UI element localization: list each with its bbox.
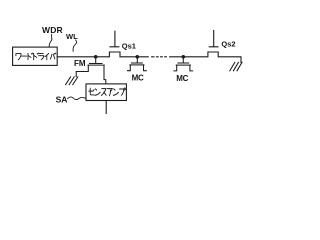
- memory cell MC2 transistor: [174, 57, 193, 71]
- node dot MC1 tap: [136, 55, 140, 59]
- svg-text:MC: MC: [176, 74, 188, 83]
- svg-text:Qs1: Qs1: [122, 41, 136, 50]
- transistor FM (gate stub, gate bar, channel, legs): [76, 57, 106, 84]
- wire WL dashed segment: [152, 56, 167, 58]
- wire SA output: [105, 101, 107, 114]
- transistor Qs2 gate: [209, 30, 218, 46]
- transistor Qs1 gate: [110, 31, 119, 47]
- WDR leader squiggle: [49, 34, 52, 47]
- svg-text:WDR: WDR: [42, 25, 63, 35]
- svg-text:MC: MC: [132, 74, 144, 83]
- WL leader squiggle: [73, 40, 77, 51]
- ground (FM source): [66, 77, 78, 85]
- svg-text:WL: WL: [66, 32, 78, 41]
- node dot FM tap: [94, 55, 98, 59]
- sense amp box SA: [86, 84, 126, 101]
- wire WL left segment with Qs1 channel step: [57, 52, 148, 57]
- svg-text:SA: SA: [56, 94, 68, 104]
- SA leader squiggle: [68, 97, 86, 100]
- wire WL right segment with Qs2 channel step: [170, 52, 241, 62]
- word driver box WDR: [13, 47, 58, 65]
- ground (WL far end after Qs2): [230, 62, 242, 71]
- memory cell MC1 transistor: [128, 57, 147, 71]
- word driver label text (katakana paths): [16, 53, 56, 60]
- svg-text:FM: FM: [74, 59, 86, 68]
- sense amp label text (katakana paths): [89, 88, 126, 96]
- svg-text:Qs2: Qs2: [221, 40, 235, 49]
- node dot MC2 tap: [182, 55, 186, 59]
